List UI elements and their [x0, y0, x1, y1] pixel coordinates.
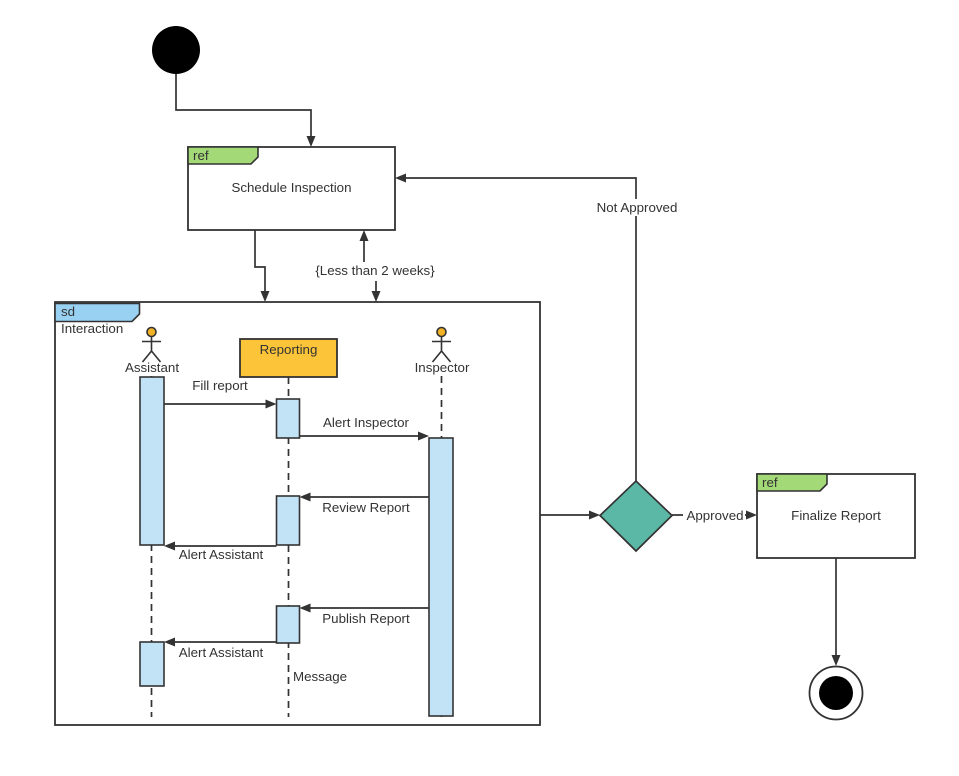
- ref box Schedule Inspection: [188, 147, 395, 230]
- svg-text:Alert Assistant: Alert Assistant: [179, 547, 264, 562]
- svg-text:Review Report: Review Report: [322, 500, 410, 515]
- label Approved: [683, 507, 745, 523]
- label {Less than 2 weeks}: [315, 263, 435, 278]
- wire constraint lower (arrow down into sd frame top): [372, 281, 381, 302]
- lifeline Assistant: [151, 376, 153, 717]
- decision diamond: [600, 481, 672, 551]
- actor Assistant: [142, 328, 161, 363]
- label Message: [293, 669, 347, 684]
- svg-text:sd: sd: [61, 304, 75, 319]
- lifeline Inspector: [441, 376, 443, 717]
- wire sd frame to diamond: [540, 511, 600, 520]
- svg-text:Schedule Inspection: Schedule Inspection: [231, 180, 351, 195]
- wire Not Approved (diamond top to Schedule Inspection right): [395, 174, 636, 482]
- sd frame Interaction: [55, 302, 540, 725]
- message Alert Assistant 2: [164, 638, 277, 661]
- message Alert Assistant 1: [164, 542, 277, 563]
- object box Reporting: [240, 339, 337, 377]
- ref tab (Schedule Inspection): [188, 147, 258, 164]
- wire Schedule Inspection to sd frame: [255, 230, 270, 302]
- wire Approved (diamond to Finalize Report): [672, 511, 757, 520]
- wire initial node to Schedule Inspection: [176, 74, 316, 147]
- svg-text:Fill report: Fill report: [192, 378, 248, 393]
- wire constraint upper (arrow up into Schedule Inspection bottom): [360, 230, 369, 262]
- sd tab: [55, 304, 140, 322]
- label Interaction: [61, 321, 123, 336]
- label Not Approved: [594, 199, 680, 216]
- initial node: [152, 26, 200, 74]
- svg-text:{Less than 2 weeks}: {Less than 2 weeks}: [315, 263, 435, 278]
- activation bar Inspector: [429, 438, 453, 716]
- message Review Report: [300, 493, 430, 516]
- svg-text:Finalize Report: Finalize Report: [791, 508, 881, 523]
- svg-text:Publish Report: Publish Report: [322, 611, 410, 626]
- label Inspector: [415, 360, 470, 375]
- activation bar Reporting 1: [277, 399, 300, 438]
- svg-text:ref: ref: [193, 148, 209, 163]
- message Fill report: [164, 378, 277, 409]
- wire Finalize Report to final node: [832, 558, 841, 666]
- activation bar Reporting 2: [277, 496, 300, 545]
- message Publish Report: [300, 604, 430, 627]
- svg-text:Reporting: Reporting: [260, 342, 318, 357]
- activation bar Reporting 3: [277, 606, 300, 643]
- svg-text:Approved: Approved: [686, 508, 743, 523]
- svg-text:ref: ref: [762, 475, 778, 490]
- svg-text:Alert Assistant: Alert Assistant: [179, 645, 264, 660]
- svg-text:Interaction: Interaction: [61, 321, 123, 336]
- svg-text:Message: Message: [293, 669, 347, 684]
- final node: [810, 667, 863, 720]
- message Alert Inspector: [300, 415, 430, 441]
- svg-text:Alert Inspector: Alert Inspector: [323, 415, 409, 430]
- ref tab (Finalize Report): [757, 474, 827, 491]
- svg-text:Inspector: Inspector: [415, 360, 470, 375]
- activation bar Assistant 1: [140, 377, 164, 545]
- lifeline Reporting: [288, 377, 290, 717]
- svg-text:Not Approved: Not Approved: [597, 200, 678, 215]
- activation bar Assistant 2: [140, 642, 164, 686]
- label Assistant: [125, 360, 179, 375]
- actor Inspector: [432, 328, 451, 363]
- ref box Finalize Report: [757, 474, 915, 558]
- svg-text:Assistant: Assistant: [125, 360, 179, 375]
